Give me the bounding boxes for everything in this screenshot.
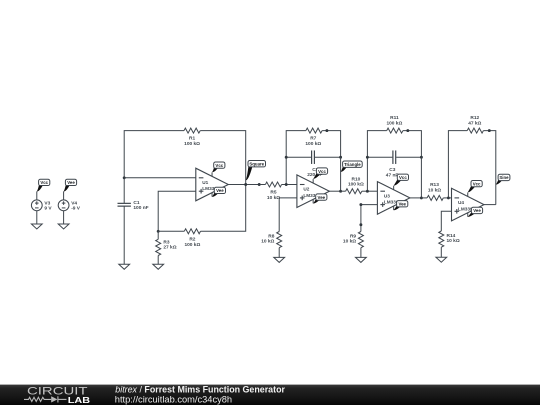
ground under R3	[153, 264, 164, 269]
ground under C1	[119, 264, 130, 269]
svg-text:C3: C3	[389, 167, 395, 173]
wire R13 to U4 stage	[443, 197, 448, 199]
svg-text:Vee: Vee	[67, 180, 75, 185]
svg-text:Vee: Vee	[318, 195, 326, 200]
op-amp U1 LM324	[196, 168, 229, 201]
wire bottom feedback left segment	[158, 230, 184, 232]
wire stage4 top feedback right segment	[483, 131, 495, 205]
wire left rail to C1	[123, 178, 125, 203]
output flag Square	[246, 161, 266, 181]
svg-text:R5: R5	[270, 190, 276, 196]
wire stage2 top feedback right segment	[322, 131, 341, 158]
svg-text:U2: U2	[303, 187, 309, 192]
op-amp U2 LM324	[297, 175, 330, 208]
wire bottom feedback right segment	[201, 185, 246, 232]
wire U2 inverting input	[286, 184, 297, 186]
svg-text:U4: U4	[458, 200, 464, 205]
voltage source V4 -9 V	[58, 200, 81, 212]
svg-text:47 nF: 47 nF	[386, 172, 399, 178]
svg-text:100 kΩ: 100 kΩ	[348, 182, 364, 188]
svg-text:Triangle: Triangle	[344, 162, 361, 167]
svg-text:R2: R2	[189, 236, 195, 242]
footer black bar	[0, 385, 540, 405]
resistor R7 100 k&#937;	[306, 128, 322, 133]
ground under V3	[31, 224, 42, 229]
capacitor C2 220 pF	[311, 150, 313, 164]
svg-text:bitrex / Forrest Mims Function: bitrex / Forrest Mims Function Generator	[115, 384, 285, 394]
wire R3 top lead	[157, 231, 159, 239]
wire U3 non-inverting input	[361, 205, 378, 232]
power flag Vee at U1	[212, 187, 225, 197]
op-amp U4 LM324	[452, 188, 485, 221]
svg-text:R8: R8	[268, 233, 274, 239]
wire stage3 cap row left	[367, 156, 392, 158]
power flag Vee at U2	[313, 194, 327, 204]
wire stage2 right rail	[340, 157, 342, 191]
power flag Vee at U3	[394, 201, 408, 211]
wire stage3 cap row right	[396, 156, 421, 158]
output flag Sine	[496, 174, 510, 184]
svg-text:10 kΩ: 10 kΩ	[343, 239, 356, 245]
wire U1 inverting input	[124, 177, 196, 179]
wire R14 to ground	[440, 247, 442, 257]
resistor R1 100 k&#937;	[184, 128, 200, 133]
wire U4 non-inverting input	[441, 211, 451, 231]
wire stage3 right rail lower	[420, 157, 422, 198]
svg-text:Vcc: Vcc	[318, 169, 326, 174]
node junction rail / U3 - input	[366, 190, 369, 193]
node joint on stage2 top wire	[325, 129, 328, 132]
power flag Vcc at U4	[468, 181, 482, 193]
ground under R8	[274, 257, 285, 262]
wire U1 output	[228, 184, 259, 186]
wire stage2 left rail	[286, 131, 306, 185]
wire U2 output	[329, 190, 340, 192]
svg-text:10 kΩ: 10 kΩ	[428, 187, 441, 193]
svg-text:Square: Square	[249, 161, 264, 166]
svg-text:R11: R11	[390, 115, 399, 121]
wire stage4 left rail	[448, 131, 467, 198]
svg-text:V3: V3	[44, 201, 50, 207]
wire V4 bottom lead	[63, 211, 65, 224]
power flag Vcc at U2	[313, 168, 327, 179]
resistor R5 10 k&#937;	[265, 182, 281, 187]
capacitor C1 100 nF	[118, 202, 131, 204]
resistor R12 47 k&#937;	[467, 128, 483, 133]
node junction U2 output / Triangle net	[339, 190, 342, 193]
wire stage3 top feedback right segment	[403, 131, 422, 158]
wire R9 to ground	[360, 248, 362, 258]
voltage source V3 9 V	[31, 200, 52, 212]
wire U3 output to R13	[421, 197, 427, 199]
power flag Vee at V4	[64, 179, 77, 191]
wire C1 to ground	[123, 207, 125, 265]
node junction R2/R3 divider	[157, 230, 160, 233]
node junction rail / U4 - input	[447, 196, 450, 199]
wire output to R5	[259, 184, 265, 186]
svg-text:27 kΩ: 27 kΩ	[163, 245, 176, 251]
ground under V4	[58, 224, 69, 229]
svg-text:Sine: Sine	[499, 175, 509, 180]
svg-text:R10: R10	[351, 176, 360, 182]
svg-text:R9: R9	[350, 233, 356, 239]
wire R5 to U2 stage	[282, 184, 287, 186]
svg-text:-9 V: -9 V	[71, 206, 81, 212]
svg-text:10 kΩ: 10 kΩ	[447, 238, 460, 244]
wire stage1 top feedback right segment	[200, 131, 246, 185]
resistor R9 10 k&#937;	[358, 232, 363, 248]
output flag Triangle	[341, 161, 363, 172]
node junction stage3 right rail / C3 row	[420, 156, 423, 159]
wire U4 inverting input	[448, 197, 451, 199]
svg-text:100 kΩ: 100 kΩ	[386, 120, 402, 126]
svg-text:R7: R7	[310, 136, 316, 142]
ground under R9	[356, 257, 367, 262]
wire stage2 cap row left	[286, 156, 311, 158]
wire V3 top lead	[36, 191, 38, 200]
CircuitLab logo resistor-diode symbol	[24, 396, 67, 402]
svg-text:LAB: LAB	[68, 395, 90, 405]
svg-text:R13: R13	[430, 182, 439, 188]
node junction U3 + input corner	[359, 203, 362, 206]
wire U2 non-inverting input	[279, 198, 297, 232]
wire U4 output	[484, 204, 496, 206]
svg-text:100 kΩ: 100 kΩ	[305, 141, 321, 147]
power flag Vcc at U1	[212, 162, 225, 172]
node junction U1 output / feedback rail	[244, 183, 247, 186]
node junction left rail / C2 row	[285, 156, 288, 159]
wire U3 output	[410, 197, 422, 199]
op-amp U3 LM324	[377, 182, 410, 215]
wire stage3 left rail	[367, 131, 386, 192]
ground under R14	[436, 257, 447, 262]
svg-text:10 kΩ: 10 kΩ	[261, 239, 274, 245]
svg-text:R3: R3	[163, 239, 169, 245]
svg-text:100 kΩ: 100 kΩ	[184, 242, 200, 248]
node joint on R9 wire	[359, 223, 362, 226]
wire R8 to ground	[278, 248, 280, 258]
wire U1 non-inverting input	[158, 191, 196, 231]
wire V3 bottom lead	[36, 211, 38, 224]
wire R3 to ground	[157, 256, 159, 265]
svg-text:100 kΩ: 100 kΩ	[184, 141, 200, 147]
node junction rail / U2 - input	[285, 183, 288, 186]
svg-text:Vcc: Vcc	[215, 163, 223, 168]
node joint on stage4 top wire	[488, 129, 491, 132]
svg-text:47 kΩ: 47 kΩ	[468, 120, 481, 126]
svg-text:V4: V4	[71, 201, 77, 207]
svg-text:U3: U3	[384, 193, 390, 198]
resistor R3 27 k&#937;	[156, 239, 161, 255]
wire U3 inverting input	[367, 190, 377, 192]
svg-text:9 V: 9 V	[44, 206, 52, 212]
svg-text:R1: R1	[189, 136, 195, 142]
capacitor C3 47 nF	[392, 150, 394, 164]
svg-text:http://circuitlab.com/c34cy8h: http://circuitlab.com/c34cy8h	[115, 394, 232, 404]
resistor R13 10 k&#937;	[427, 195, 443, 200]
wire R10 to U3 stage	[362, 190, 368, 192]
svg-text:Vee: Vee	[473, 208, 481, 213]
resistor R14 10 k&#937;	[439, 231, 444, 247]
svg-text:Vcc: Vcc	[399, 175, 407, 180]
power flag Vee at U4	[468, 207, 483, 217]
resistor R2 100 k&#937;	[184, 229, 200, 234]
power flag Vcc at V3	[37, 179, 50, 191]
wire U2 output to R10	[341, 190, 346, 192]
node junction right rail / C2 row	[339, 156, 342, 159]
svg-text:Vcc: Vcc	[473, 181, 481, 186]
svg-text:R12: R12	[470, 115, 479, 121]
svg-text:Vcc: Vcc	[40, 180, 48, 185]
svg-text:LM339: LM339	[458, 206, 473, 211]
svg-text:Vee: Vee	[398, 201, 406, 206]
node junction U3 output / rail	[420, 196, 423, 199]
node junction left rail / U1 - input	[123, 176, 126, 179]
wire stage1 top feedback left segment	[124, 131, 184, 178]
resistor R10 100 k&#937;	[346, 189, 362, 194]
resistor R8 10 k&#937;	[277, 232, 282, 248]
svg-text:100 nF: 100 nF	[133, 205, 148, 211]
svg-text:Vee: Vee	[216, 188, 224, 193]
svg-text:R14: R14	[447, 233, 456, 239]
resistor R11 100 k&#937;	[387, 128, 403, 133]
node Square net	[258, 183, 261, 186]
wire stage2 cap row right	[315, 156, 341, 158]
svg-text:U1: U1	[202, 180, 208, 185]
svg-text:10 kΩ: 10 kΩ	[267, 195, 280, 201]
node junction stage3 left rail / C3 row	[366, 156, 369, 159]
node joint on stage3 top wire	[406, 129, 409, 132]
wire V4 top lead	[63, 191, 65, 200]
power flag Vcc at U3	[394, 174, 409, 186]
